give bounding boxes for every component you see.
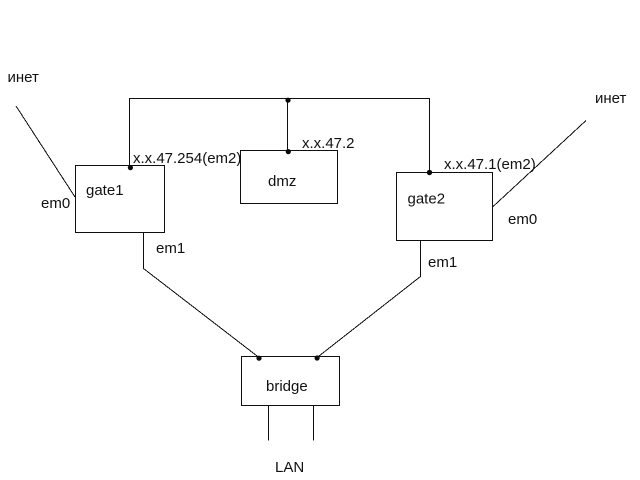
- junction dot gate2 top: [427, 170, 432, 175]
- svg-text:x.x.47.254(em2): x.x.47.254(em2): [133, 150, 241, 167]
- svg-text:x.x.47.1(em2): x.x.47.1(em2): [444, 156, 536, 173]
- box bridge: [242, 357, 340, 406]
- svg-text:LAN: LAN: [275, 459, 304, 476]
- svg-text:инет: инет: [8, 69, 40, 86]
- wire top rail: [130, 99, 430, 173]
- svg-text:инет: инет: [595, 90, 627, 107]
- junction dot bridge top-left: [256, 356, 261, 361]
- wire LAN stub right: [313, 406, 315, 441]
- svg-text:em0: em0: [508, 211, 537, 228]
- svg-text:gate1: gate1: [86, 182, 124, 199]
- svg-text:bridge: bridge: [266, 378, 308, 395]
- svg-text:em1: em1: [428, 254, 457, 271]
- wire gate1 em1: [144, 233, 260, 358]
- junction dot rail-dmz: [285, 98, 290, 103]
- wire dmz drop: [287, 99, 289, 151]
- wire LAN stub left: [268, 406, 270, 441]
- junction dot gate1 top: [128, 165, 133, 170]
- svg-text:x.x.47.2: x.x.47.2: [302, 135, 355, 152]
- svg-text:em0: em0: [41, 195, 70, 212]
- svg-text:em1: em1: [156, 240, 185, 257]
- wire inet right diagonal: [492, 121, 586, 208]
- junction dot bridge top-right: [315, 355, 320, 360]
- junction dot dmz top: [286, 149, 291, 154]
- box gate2: [397, 173, 493, 241]
- box gate1: [76, 166, 165, 233]
- svg-text:dmz: dmz: [268, 173, 296, 190]
- svg-text:gate2: gate2: [408, 191, 446, 208]
- wire gate2 em1: [317, 241, 420, 358]
- wire inet left diagonal: [16, 106, 75, 197]
- box dmz: [241, 151, 338, 204]
